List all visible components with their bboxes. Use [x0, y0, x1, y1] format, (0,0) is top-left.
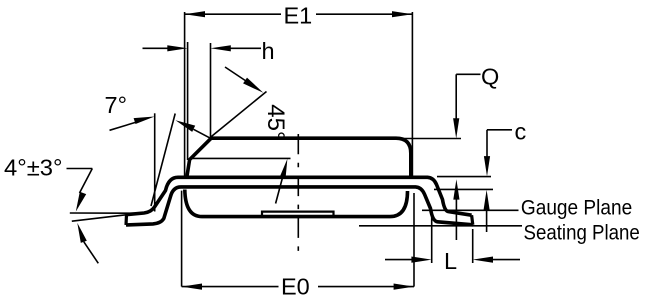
E1 right extension line	[411, 12, 413, 176]
h right extension line	[210, 43, 212, 138]
lead bottom surface extension (c lower target)	[434, 188, 493, 190]
up arrow at lead top extension	[453, 179, 459, 199]
svg-text:4°±3°: 4°±3°	[4, 155, 63, 181]
E0 left arrowhead	[182, 284, 202, 290]
svg-text:Q: Q	[481, 64, 499, 90]
up arrowhead touching 45 reference line	[280, 159, 288, 179]
c leader vertical	[486, 130, 488, 162]
45 degree chamfer reference horizontal line	[190, 157, 291, 159]
dimension E1 line left part	[185, 13, 281, 15]
leader arrow to 45 reference line (from inside body)	[276, 172, 284, 204]
left lead end cap	[124, 215, 128, 225]
svg-text:E1: E1	[284, 2, 313, 28]
svg-text:h: h	[262, 38, 275, 64]
c leader horizontal	[487, 129, 512, 131]
7deg leader	[110, 121, 141, 130]
Q leader horizontal	[456, 73, 480, 75]
h dimension right tail	[229, 47, 261, 49]
L left extension line	[431, 211, 433, 263]
7deg arrowhead right	[134, 117, 155, 125]
7deg tilted line	[151, 114, 175, 207]
svg-text:L: L	[444, 248, 457, 274]
4deg lower leader	[84, 242, 99, 263]
package body top (chamfered cap)	[187, 138, 411, 176]
svg-text:c: c	[515, 119, 527, 145]
seating plane line	[359, 225, 522, 227]
centerline (dash-dot)	[297, 134, 299, 254]
4deg wedge tilted line	[72, 215, 128, 222]
7deg second arrowhead	[176, 120, 196, 132]
top surface extension line (Q target)	[398, 138, 461, 140]
E0 right extension line	[413, 193, 415, 287]
svg-text:E0: E0	[281, 274, 310, 300]
h right arrowhead	[211, 45, 231, 51]
lead frame bottom edge (left foot to right foot)	[126, 187, 473, 225]
4deg up arrowhead	[77, 223, 87, 243]
45 leader line	[225, 67, 246, 81]
7deg vertical reference line	[154, 113, 156, 211]
E0 left extension line	[181, 191, 183, 287]
h dimension left tail	[143, 47, 171, 49]
Q leader vertical	[455, 74, 457, 124]
4deg down arrowhead	[76, 192, 86, 212]
dimension E0 line right part	[318, 286, 414, 288]
lead frame top edge (left foot to right foot)	[127, 177, 472, 215]
svg-text:45°: 45°	[262, 104, 289, 140]
E1 left arrowhead	[185, 11, 205, 17]
svg-text:Gauge Plane: Gauge Plane	[521, 196, 632, 220]
L right arrowhead	[473, 257, 493, 263]
c lower arrowhead up	[484, 190, 490, 210]
E1 right arrowhead	[392, 11, 412, 17]
4deg wedge horizontal line	[70, 212, 146, 214]
dimension E0 line left part	[182, 286, 279, 288]
4deg label leader diagonal	[80, 169, 93, 194]
4deg label leader horizontal	[67, 168, 93, 170]
L left arrowhead	[411, 257, 431, 263]
Q arrowhead down	[453, 118, 459, 138]
45 leader arrowhead	[243, 78, 263, 93]
vertical tail of up arrow	[455, 193, 457, 240]
L right extension line	[472, 229, 474, 263]
L dimension right tail	[491, 259, 520, 261]
right lead end cap	[472, 215, 473, 225]
h left extension line	[187, 42, 189, 160]
E1 left extension line	[184, 12, 186, 176]
L dimension left tail	[385, 259, 413, 261]
c lower tail vertical	[486, 204, 488, 232]
h left arrowhead	[167, 45, 187, 51]
7deg second leader from chamfer corner	[194, 129, 211, 138]
svg-text:Seating Plane: Seating Plane	[524, 221, 640, 245]
dimension E1 line right part	[316, 13, 412, 15]
lead top surface extension (c upper target)	[437, 176, 491, 178]
45 degree line	[210, 92, 266, 138]
E0 right arrowhead	[394, 284, 414, 290]
bottom pad bar	[262, 212, 334, 216]
package body bottom	[185, 190, 408, 217]
c upper arrowhead down	[484, 156, 490, 176]
svg-text:7°: 7°	[105, 92, 127, 118]
gauge plane line	[422, 209, 519, 211]
